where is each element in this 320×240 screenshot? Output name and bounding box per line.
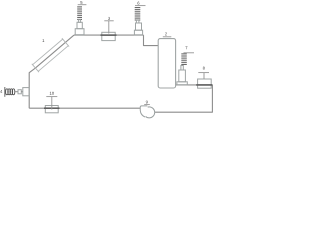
actuator 4 plunger small: [18, 90, 21, 94]
wire bottom left pipe: [29, 107, 140, 109]
wire diagonal pipe to left vertical: [29, 35, 74, 108]
actuator 4 link: [21, 91, 23, 93]
valve 5 body: [75, 20, 84, 35]
wire vessel outlet right pipe: [155, 85, 213, 112]
vessel 2: [158, 39, 175, 88]
actuator 4 spring: [6, 89, 15, 95]
label 5: [80, 1, 82, 4]
actuator 4 stem: [15, 91, 18, 93]
label 10: [50, 92, 52, 95]
label 1: [42, 39, 44, 42]
actuator 4 anchor bar: [4, 87, 6, 97]
valve 7 coil: [181, 54, 187, 65]
valve 7 body: [177, 66, 187, 85]
actuator 4 plunger large: [23, 88, 29, 96]
label 2: [165, 32, 167, 35]
label 4: [0, 90, 2, 93]
wire top pipe: [74, 34, 144, 36]
valve 5 coil: [77, 7, 82, 20]
label 7: [185, 46, 187, 49]
pump 9 circle: [144, 107, 155, 118]
flow element 8: [198, 79, 212, 88]
label 9: [146, 101, 148, 104]
label 8: [203, 67, 205, 70]
flow element 3: [102, 32, 115, 40]
valve 6 body: [134, 20, 142, 35]
label 6: [137, 2, 139, 5]
valve 6 coil: [135, 8, 141, 20]
jacket lines of heated section 1: [32, 38, 69, 72]
flow element 10: [45, 106, 58, 113]
label 3: [108, 17, 110, 20]
wire drop to vessel inlet: [144, 35, 159, 46]
pump 9 scroll: [140, 106, 149, 117]
